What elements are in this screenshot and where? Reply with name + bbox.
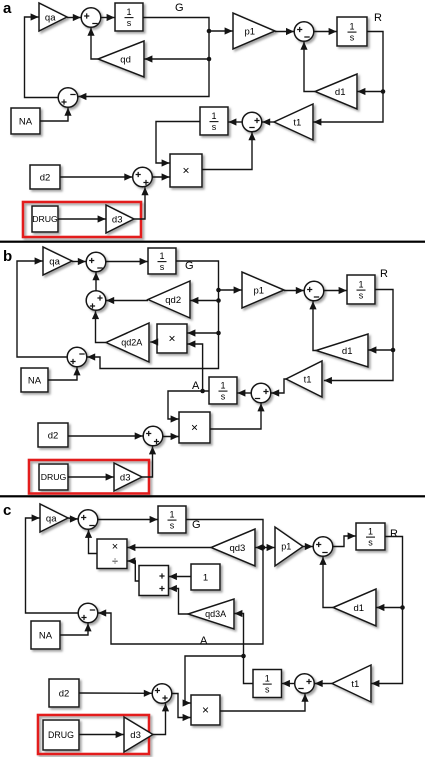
svg-text:×: × <box>168 332 175 346</box>
svg-text:s: s <box>350 33 355 43</box>
svg-text:b: b <box>3 248 12 265</box>
svg-text:qd3: qd3 <box>229 543 245 554</box>
svg-text:A: A <box>192 380 200 392</box>
svg-text:d3: d3 <box>112 214 123 225</box>
svg-text:1: 1 <box>220 381 225 391</box>
svg-text:NA: NA <box>28 375 42 386</box>
svg-text:d1: d1 <box>354 603 365 614</box>
svg-text:G: G <box>185 260 194 272</box>
svg-text:÷: ÷ <box>112 556 118 568</box>
svg-text:qa: qa <box>45 12 56 23</box>
svg-text:G: G <box>192 519 201 531</box>
svg-text:s: s <box>368 538 373 548</box>
svg-text:1: 1 <box>349 22 354 32</box>
svg-text:d2: d2 <box>59 688 70 699</box>
svg-text:×: × <box>182 164 189 178</box>
svg-text:s: s <box>212 122 217 132</box>
svg-text:s: s <box>265 685 270 695</box>
svg-text:t1: t1 <box>351 679 359 690</box>
svg-text:qa: qa <box>46 513 57 524</box>
svg-text:1: 1 <box>126 7 131 17</box>
svg-text:s: s <box>359 291 364 301</box>
svg-text:×: × <box>191 421 198 435</box>
svg-text:NA: NA <box>19 116 33 127</box>
svg-text:G: G <box>175 2 184 14</box>
svg-text:1: 1 <box>159 251 164 261</box>
svg-text:qd: qd <box>120 54 131 65</box>
svg-text:R: R <box>374 12 382 24</box>
svg-text:a: a <box>3 0 12 17</box>
svg-text:×: × <box>202 703 209 717</box>
svg-text:R: R <box>390 528 398 540</box>
svg-text:qd2: qd2 <box>165 295 181 306</box>
svg-text:1: 1 <box>203 572 208 583</box>
svg-text:d1: d1 <box>335 87 346 98</box>
svg-text:DRUG: DRUG <box>32 214 58 224</box>
svg-text:p1: p1 <box>254 285 265 296</box>
svg-text:×: × <box>112 541 118 553</box>
svg-text:1: 1 <box>265 674 270 684</box>
svg-text:s: s <box>127 18 132 28</box>
svg-text:A: A <box>200 635 208 647</box>
svg-text:s: s <box>221 392 226 402</box>
svg-text:s: s <box>170 521 175 531</box>
svg-text:d3: d3 <box>130 730 141 741</box>
svg-text:1: 1 <box>169 510 174 520</box>
svg-text:t1: t1 <box>304 374 312 385</box>
svg-text:c: c <box>3 502 11 519</box>
svg-text:1: 1 <box>358 280 363 290</box>
svg-text:qa: qa <box>49 256 60 267</box>
svg-text:s: s <box>160 262 165 272</box>
svg-text:NA: NA <box>39 630 53 641</box>
svg-text:DRUG: DRUG <box>41 472 67 482</box>
svg-text:p1: p1 <box>281 542 291 552</box>
svg-text:d1: d1 <box>342 346 353 357</box>
svg-text:R: R <box>380 268 388 280</box>
svg-text:d3: d3 <box>120 472 131 483</box>
svg-text:t1: t1 <box>293 117 301 128</box>
svg-text:d2: d2 <box>48 430 59 441</box>
svg-text:qd2A: qd2A <box>121 338 142 348</box>
svg-text:1: 1 <box>211 111 216 121</box>
svg-text:d2: d2 <box>40 172 51 183</box>
svg-text:p1: p1 <box>245 26 256 37</box>
svg-text:DRUG: DRUG <box>48 730 74 740</box>
svg-text:1: 1 <box>368 527 373 537</box>
svg-text:qd3A: qd3A <box>205 609 226 619</box>
